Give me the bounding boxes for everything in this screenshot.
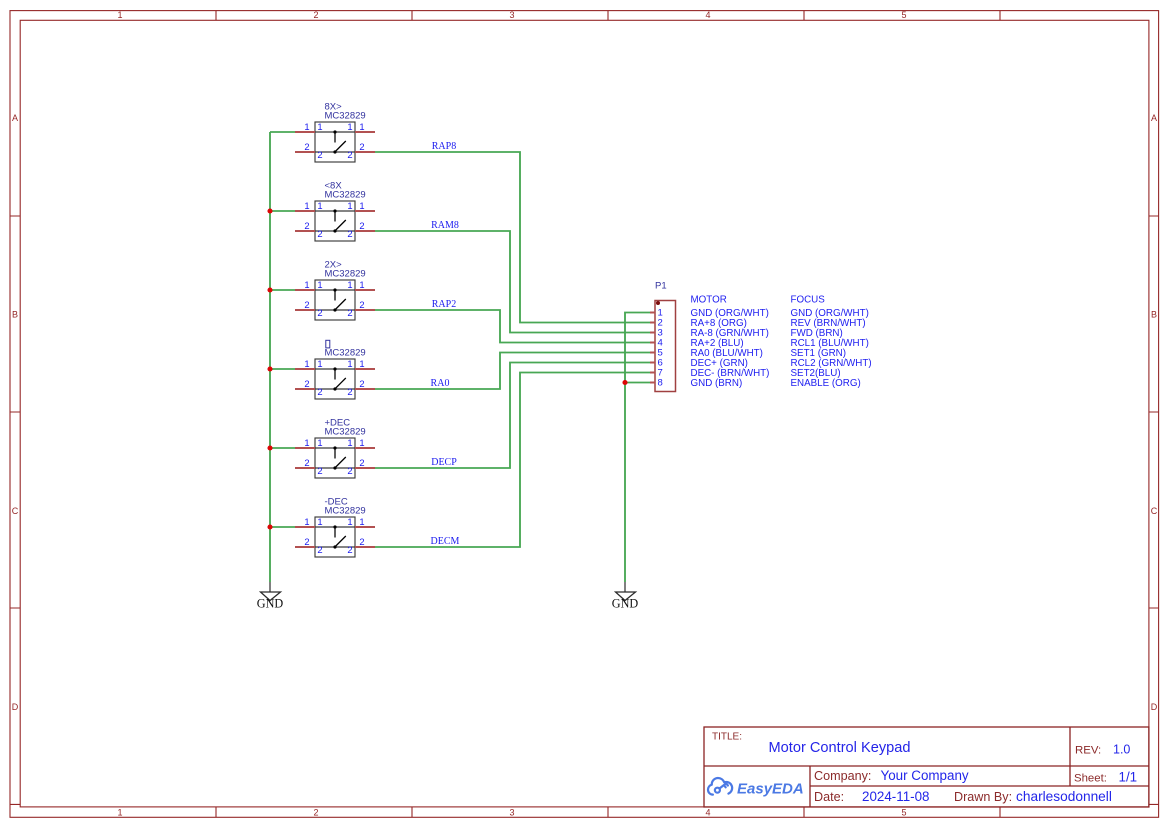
top ruler ticks xyxy=(216,11,1000,21)
svg-text:1: 1 xyxy=(117,808,122,818)
svg-text:D: D xyxy=(1151,702,1158,712)
svg-text:RAM8: RAM8 xyxy=(431,220,459,231)
svg-text:2: 2 xyxy=(313,808,318,818)
svg-text:GND (BRN): GND (BRN) xyxy=(691,378,743,389)
wire: rail to S4 pin1 xyxy=(270,368,295,370)
svg-text:MC32829: MC32829 xyxy=(325,506,366,517)
connector P1 xyxy=(650,301,676,392)
svg-text:MOTOR: MOTOR xyxy=(691,295,727,306)
svg-text:RAP8: RAP8 xyxy=(432,141,456,152)
switch S2 <8X MC32829 xyxy=(295,200,375,241)
wire: rail to S2 pin1 xyxy=(270,210,295,212)
svg-text:C: C xyxy=(12,506,19,516)
wire: rail to S3 pin1 xyxy=(270,289,295,291)
svg-text:D: D xyxy=(12,702,19,712)
wire: net RAM8 from S2 pin2 to P1 pin3 xyxy=(375,231,650,333)
ground symbol left xyxy=(257,582,284,611)
top ruler numbers xyxy=(117,10,906,20)
bottom ruler ticks xyxy=(216,807,1000,817)
right ruler ticks xyxy=(1149,216,1159,804)
connector P1 pin numbers xyxy=(658,307,663,388)
svg-text:A: A xyxy=(12,113,18,123)
svg-text:2: 2 xyxy=(313,10,318,20)
wire: net RAP8 from S1 pin2 to P1 pin2 xyxy=(375,152,650,323)
junction on rail at S2 xyxy=(267,208,272,213)
svg-text:5: 5 xyxy=(901,10,906,20)
svg-text:RAP2: RAP2 xyxy=(432,299,456,310)
ground symbol right xyxy=(612,582,639,611)
bottom ruler numbers xyxy=(117,808,906,818)
switch S4 label box glyph xyxy=(326,340,330,348)
switch S4 (box glyph) MC32829 xyxy=(295,358,375,399)
svg-text:DECM: DECM xyxy=(431,536,460,547)
svg-text:1: 1 xyxy=(117,10,122,20)
svg-text:ENABLE (ORG): ENABLE (ORG) xyxy=(791,378,861,389)
svg-text:Date:: Date: xyxy=(814,790,844,804)
svg-text:P1: P1 xyxy=(655,281,667,292)
left ruler ticks xyxy=(10,216,20,804)
svg-text:1/1: 1/1 xyxy=(1119,770,1138,785)
svg-text:5: 5 xyxy=(901,808,906,818)
wire: rail to S5 pin1 xyxy=(270,447,295,449)
MOTOR column pin functions xyxy=(691,308,770,389)
svg-text:REV:: REV: xyxy=(1075,745,1101,757)
svg-text:4: 4 xyxy=(705,808,710,818)
wire: net RAP2 from S3 pin2 to P1 pin4 xyxy=(375,310,650,343)
EasyEDA logo cloud icon xyxy=(708,778,732,795)
title block divider below title row xyxy=(704,765,1149,767)
junction on rail at S6 xyxy=(267,524,272,529)
svg-text:3: 3 xyxy=(509,10,514,20)
svg-text:Sheet:: Sheet: xyxy=(1074,773,1107,785)
svg-text:RA0: RA0 xyxy=(431,378,450,389)
FOCUS column pin functions xyxy=(791,308,872,389)
wire: net DECP from S5 pin2 to P1 pin6 xyxy=(375,363,650,469)
svg-text:1.0: 1.0 xyxy=(1113,743,1130,757)
junction on rail at S3 xyxy=(267,287,272,292)
junction on rail at S4 xyxy=(267,366,272,371)
svg-text:MC32829: MC32829 xyxy=(325,111,366,122)
svg-text:B: B xyxy=(1151,310,1157,320)
svg-text:Drawn By:: Drawn By: xyxy=(954,790,1012,804)
svg-text:MC32829: MC32829 xyxy=(325,269,366,280)
left ruler letters xyxy=(12,113,19,712)
wire: left GND rail vertical xyxy=(269,132,271,582)
title block outline xyxy=(704,727,1149,807)
svg-text:4: 4 xyxy=(705,10,710,20)
svg-text:MC32829: MC32829 xyxy=(325,190,366,201)
title block divider left of REV column xyxy=(1069,727,1071,786)
switch S5 +DEC MC32829 xyxy=(295,437,375,478)
junction at P1 pin8 xyxy=(622,380,627,385)
svg-text:MC32829: MC32829 xyxy=(325,427,366,438)
wire: rail to S1 pin1 xyxy=(270,131,295,133)
title block divider right of logo cell xyxy=(809,766,811,807)
wire: P1 pin8 to right GND rail xyxy=(625,382,650,384)
svg-text:A: A xyxy=(1151,113,1157,123)
junction on rail at S5 xyxy=(267,445,272,450)
svg-text:Company:: Company: xyxy=(814,769,871,783)
svg-text:Your Company: Your Company xyxy=(881,768,969,783)
svg-text:B: B xyxy=(12,310,18,320)
svg-text:EasyEDA: EasyEDA xyxy=(737,781,804,798)
svg-text:Motor Control Keypad: Motor Control Keypad xyxy=(769,740,911,756)
svg-text:TITLE:: TITLE: xyxy=(712,732,742,743)
wire: net RA0 from S4 pin2 to P1 pin5 xyxy=(375,353,650,390)
switch S3 2X> MC32829 xyxy=(295,279,375,320)
svg-text:FOCUS: FOCUS xyxy=(791,295,826,306)
right ruler letters xyxy=(1151,113,1158,712)
svg-text:8: 8 xyxy=(658,377,663,388)
svg-text:charlesodonnell: charlesodonnell xyxy=(1016,789,1112,804)
svg-text:GND: GND xyxy=(612,597,639,611)
title block divider between company and date rows xyxy=(810,785,1149,787)
switch S6 -DEC MC32829 xyxy=(295,516,375,557)
svg-text:MC32829: MC32829 xyxy=(325,348,366,359)
svg-text:2024-11-08: 2024-11-08 xyxy=(862,789,930,804)
switch S1 8X> MC32829 xyxy=(295,121,375,162)
svg-text:DECP: DECP xyxy=(431,457,457,468)
wire: net DECM from S6 pin2 to P1 pin7 xyxy=(375,373,650,548)
wire: rail to S6 pin1 xyxy=(270,526,295,528)
wire: P1 pin1 to right GND rail xyxy=(625,313,650,583)
svg-text:C: C xyxy=(1151,506,1158,516)
svg-text:3: 3 xyxy=(509,808,514,818)
svg-text:GND: GND xyxy=(257,597,284,611)
